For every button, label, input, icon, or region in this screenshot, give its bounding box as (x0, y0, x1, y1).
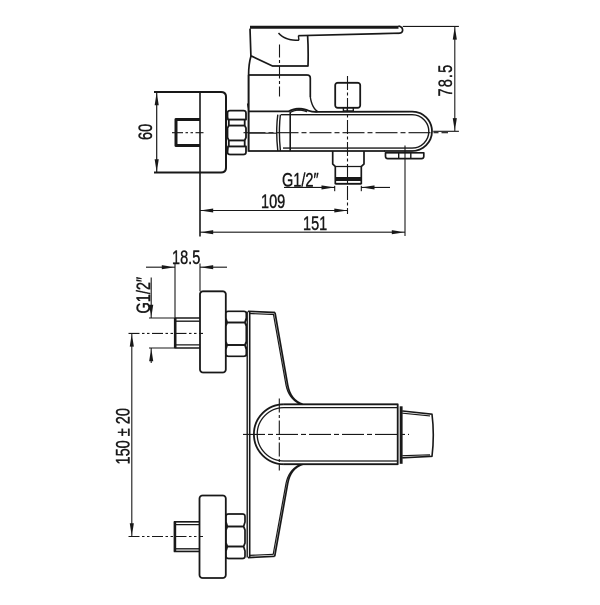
lower wall flange (200, 496, 226, 579)
dim 109 (200, 210, 348, 212)
svg-text:60: 60 (134, 124, 157, 140)
nut-to-body transition curve (248, 104, 249, 112)
collar bottom / body top edge with wave into spout (290, 110, 308, 113)
svg-text:18.5: 18.5 (172, 246, 200, 269)
outlet bottom edge (335, 183, 361, 185)
outlet thread black band (335, 177, 361, 181)
upper mounting centerline (129, 332, 204, 334)
dim G1/2 top view (284, 186, 390, 191)
upper nipple (149, 317, 175, 319)
body bottom edge (249, 150, 385, 152)
lower mounting centerline (129, 536, 204, 538)
lower nipple (174, 521, 200, 523)
dim 150 +-20 (131, 333, 133, 536)
valve body left edge (248, 75, 250, 152)
aerator tab under spout (386, 153, 424, 159)
body internal horizontal line (249, 132, 277, 134)
svg-text:150 ± 20: 150 ± 20 (111, 408, 134, 464)
flange centerline (172, 132, 204, 134)
spout base arcs (277, 115, 278, 151)
dimension 60 line with arrows (156, 92, 158, 173)
svg-text:G1/2″: G1/2″ (132, 277, 155, 314)
extension line aerator center (404, 146, 406, 237)
arrow down 60 (155, 159, 159, 172)
spout capsule inner (plan) (257, 408, 398, 461)
handle hub end cap (400, 406, 403, 464)
upper hex nut (226, 311, 247, 356)
body bottom edge (plan) (248, 556, 275, 557)
lower hex nut (226, 514, 245, 559)
lever top thick line (250, 26, 399, 29)
spout centerline (plan) (243, 433, 409, 435)
body right slant lower (275, 464, 303, 556)
svg-text:109: 109 (261, 190, 285, 213)
hex nut on wall union (side view) (228, 111, 247, 155)
pipe nipple behind wall (thick) (176, 120, 200, 146)
dim 78.5 (403, 26, 459, 131)
handle lever (side view) (250, 26, 403, 66)
lever underside notch (279, 33, 299, 40)
dim G1/2 bottom view (150, 278, 152, 364)
spout junction vertical (289, 112, 291, 151)
body right slant upper (275, 313, 303, 405)
spout capsule outer (plan) (254, 404, 398, 464)
wall plane line (199, 92, 201, 237)
arrow up 60 (155, 92, 159, 105)
spout inner line (281, 115, 429, 148)
dim 151 (200, 231, 405, 233)
handle tip (plan) (403, 411, 434, 458)
body top edge (plan) (248, 311, 275, 312)
dim 18.5 (146, 264, 227, 318)
spout outer outline (capsule) (249, 109, 432, 151)
cartridge collar (249, 56, 251, 75)
body left edge (plan) (246, 312, 248, 558)
svg-text:78.5: 78.5 (434, 64, 457, 97)
svg-text:G1/2″: G1/2″ (282, 168, 319, 191)
handle body outline (250, 29, 308, 66)
shower outlet hub (333, 151, 364, 184)
wall flange plate (side view) (154, 92, 226, 173)
cartridge axis centerline (plan) (278, 399, 280, 471)
diverter/outlet centerline (347, 76, 349, 214)
cartridge centerline (279, 45, 281, 97)
lever tip curl (298, 26, 402, 36)
diverter knob (335, 83, 360, 108)
svg-text:151: 151 (303, 212, 327, 235)
main axis centerline (244, 132, 449, 134)
upper wall flange (edge view) (200, 291, 226, 372)
diverter neck (343, 108, 353, 111)
